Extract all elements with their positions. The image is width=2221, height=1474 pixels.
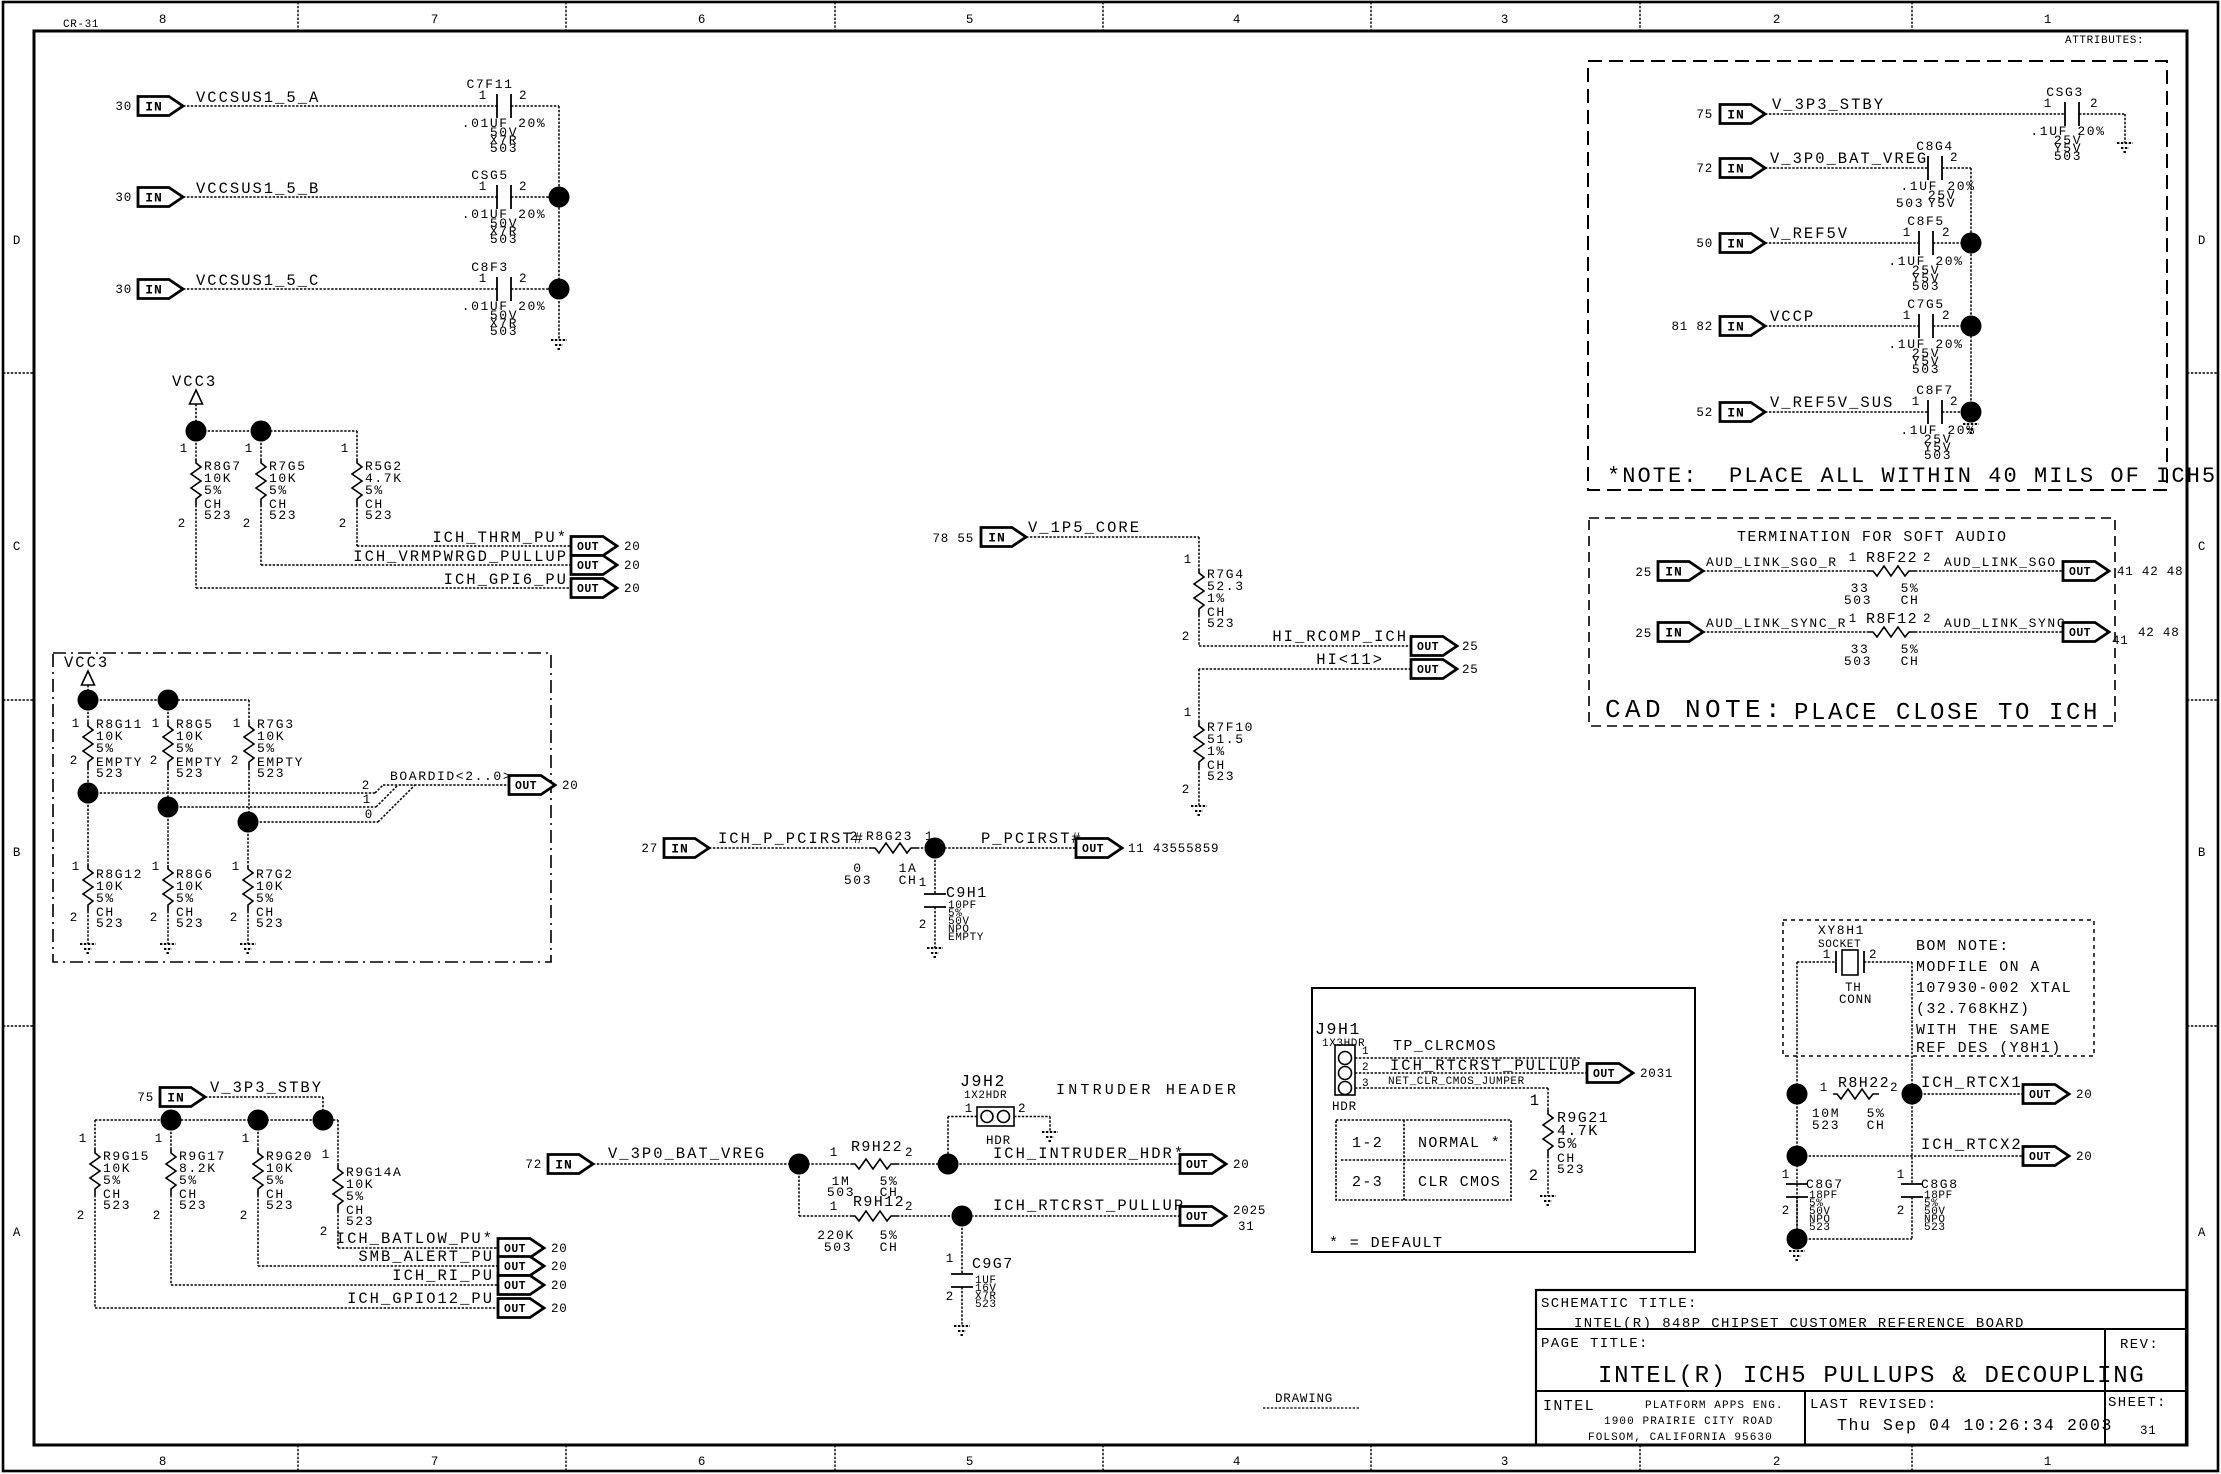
svg-text:OUT: OUT xyxy=(2029,1151,2051,1164)
svg-text:8: 8 xyxy=(159,13,167,27)
svg-text:2: 2 xyxy=(1773,1455,1781,1469)
svg-text:C7G5: C7G5 xyxy=(1907,297,1945,312)
wire R9H22 to intruder node xyxy=(897,1163,1180,1165)
svg-text:C8F5: C8F5 xyxy=(1907,214,1945,229)
net label ICH_VRMPWRGD_PULLUP xyxy=(353,548,568,566)
svg-text:5%: 5% xyxy=(96,891,115,906)
svg-text:503: 503 xyxy=(490,232,518,247)
bus BOARDID to port xyxy=(383,784,509,786)
port IN ICH_P_PCIRST# sheet 27 xyxy=(641,839,709,858)
svg-text:AUD_LINK_SGO: AUD_LINK_SGO xyxy=(1944,555,2057,570)
svg-text:D: D xyxy=(13,234,21,248)
svg-text:CONN: CONN xyxy=(1839,993,1872,1007)
svg-text:IN: IN xyxy=(555,1158,573,1173)
svg-text:2: 2 xyxy=(1529,1167,1540,1185)
label SHEET: xyxy=(2108,1395,2167,1411)
border zone letters right xyxy=(2198,234,2206,1240)
wire C8G7 C8G8 bottom bus xyxy=(1797,1197,1912,1239)
ground symbol J9H2 xyxy=(1042,1132,1058,1141)
wire R9G17 pin 2 to output xyxy=(171,1120,498,1285)
ground symbol C9H1 xyxy=(927,948,943,957)
svg-text:1900 PRAIRIE CITY ROAD: 1900 PRAIRIE CITY ROAD xyxy=(1604,1416,1773,1428)
resistor R9H22 xyxy=(827,1139,913,1200)
svg-text:IN: IN xyxy=(167,1091,185,1106)
wire VCCP to C7G5 xyxy=(1765,325,1919,327)
resistor R8H22 xyxy=(1812,1075,1898,1133)
dotted box BOM note xyxy=(1783,920,2094,1056)
resistor R7G5 xyxy=(243,442,307,531)
svg-text:31: 31 xyxy=(1238,1220,1255,1234)
wire C9G7 to ground xyxy=(961,1287,963,1326)
border zone letters left xyxy=(13,234,21,1240)
svg-text:523: 523 xyxy=(96,916,124,931)
net label ICH_INTRUDER_HDR* xyxy=(993,1145,1185,1163)
svg-text:OUT: OUT xyxy=(577,541,599,554)
svg-text:C8G4: C8G4 xyxy=(1916,139,1954,154)
svg-text:1%: 1% xyxy=(1207,744,1226,759)
label SCHEMATIC TITLE: xyxy=(1541,1296,1698,1312)
svg-text:VCCSUS1_5_C: VCCSUS1_5_C xyxy=(196,272,320,290)
junction node BOARDID bus at R8G5 xyxy=(158,690,179,711)
port OUT ICH_RI_PU sheet 20 xyxy=(498,1276,568,1295)
svg-text:2: 2 xyxy=(519,272,527,286)
svg-text:OUT: OUT xyxy=(577,583,599,596)
net label AUD_LINK_SYNC xyxy=(1944,616,2066,631)
svg-text:1: 1 xyxy=(1820,1081,1828,1095)
resistor R9G20 xyxy=(240,1132,313,1223)
svg-text:A: A xyxy=(2198,1226,2206,1240)
wire R5G2 pin 2 to ICH_THRM_PU* xyxy=(357,505,571,546)
svg-text:OUT: OUT xyxy=(504,1303,526,1316)
wire R9G14A pin 2 to output xyxy=(338,1211,498,1248)
port OUT ICH_VRMPWRGD_PULLUP sheet 20 xyxy=(571,556,641,575)
ground symbol VCCSUS bus xyxy=(551,340,567,349)
wire V_REF5V_SUS to C8F7 xyxy=(1765,411,1928,413)
junction node VCCP xyxy=(1961,316,1982,337)
svg-text:2: 2 xyxy=(1782,1204,1790,1218)
svg-text:* = DEFAULT: * = DEFAULT xyxy=(1329,1235,1443,1252)
label PAGE TITLE: xyxy=(1541,1336,1649,1352)
svg-text:OUT: OUT xyxy=(2069,566,2091,579)
wire V_1P5_CORE xyxy=(1026,537,1199,569)
port OUT AUD_LINK_SYNC sheets 41 42 48 xyxy=(2063,623,2180,649)
wire C8G4 to vertical bus xyxy=(1942,168,1971,412)
wire ICH_P_PCIRST# to R8G23 xyxy=(709,847,871,849)
svg-text:523: 523 xyxy=(1207,769,1235,784)
svg-text:1: 1 xyxy=(1849,551,1857,565)
junction node RTCX1 left xyxy=(1787,1084,1808,1105)
svg-text:523: 523 xyxy=(1812,1118,1840,1133)
port OUT ICH_RTCRST_PULLUP sheets 2025 31 xyxy=(1180,1204,1266,1234)
port OUT ICH_THRM_PU* sheet 20 xyxy=(571,537,641,556)
port OUT SMB_ALERT_PU sheet 20 xyxy=(498,1257,568,1276)
dashed box ICH5 decoupling xyxy=(1588,61,2167,490)
border zone tick marks top and bottom xyxy=(298,2,1912,1471)
svg-text:2: 2 xyxy=(2090,97,2098,111)
svg-text:C9G7: C9G7 xyxy=(972,1256,1014,1273)
svg-text:2: 2 xyxy=(150,911,158,925)
junction node RTCX1 right xyxy=(1902,1084,1923,1105)
svg-text:DRAWING: DRAWING xyxy=(1275,1392,1333,1406)
svg-text:Y5V: Y5V xyxy=(1928,196,1956,211)
svg-text:5%: 5% xyxy=(257,741,276,756)
svg-text:REF DES (Y8H1): REF DES (Y8H1) xyxy=(1916,1040,2062,1057)
wire R7F10 to ground xyxy=(1198,768,1200,806)
svg-text:A: A xyxy=(13,1226,21,1240)
svg-text:VCC3: VCC3 xyxy=(172,373,217,391)
svg-text:2-3: 2-3 xyxy=(1352,1174,1383,1191)
port OUT ICH_RTCX2 sheet 20 xyxy=(2023,1147,2093,1166)
svg-text:OUT: OUT xyxy=(1082,843,1104,856)
svg-text:2: 2 xyxy=(339,517,347,531)
svg-text:5: 5 xyxy=(966,13,974,27)
svg-text:523: 523 xyxy=(346,1214,374,1229)
svg-text:R9H22: R9H22 xyxy=(851,1139,903,1156)
svg-text:5%: 5% xyxy=(269,483,288,498)
junction node STBY bus at R9G17 xyxy=(161,1110,182,1131)
svg-text:81 82: 81 82 xyxy=(1671,320,1713,334)
svg-text:IN: IN xyxy=(145,100,163,115)
svg-text:OUT: OUT xyxy=(1593,1068,1615,1081)
svg-text:2: 2 xyxy=(362,779,370,793)
power symbol VCC3 (BOARDID) xyxy=(64,654,109,700)
svg-text:20: 20 xyxy=(551,1279,568,1293)
svg-text:2025: 2025 xyxy=(1233,1204,1266,1218)
capacitor C8G7 xyxy=(1782,1168,1844,1234)
svg-text:2: 2 xyxy=(1182,783,1190,797)
svg-text:7: 7 xyxy=(431,13,439,27)
svg-text:523: 523 xyxy=(269,508,297,523)
net label V_1P5_CORE xyxy=(1028,519,1141,537)
svg-text:6: 6 xyxy=(698,1455,706,1469)
net label ICH_THRM_PU* xyxy=(432,529,568,547)
svg-text:R8F22: R8F22 xyxy=(1866,550,1918,567)
net label V_3P0_BAT_VREG (decoupling) xyxy=(1770,150,1928,168)
svg-text:2: 2 xyxy=(320,1225,328,1239)
port OUT ICH_INTRUDER_HDR* sheet 20 xyxy=(1180,1155,1250,1174)
svg-text:523: 523 xyxy=(96,766,124,781)
svg-text:TP_CLRCMOS: TP_CLRCMOS xyxy=(1393,1038,1497,1055)
svg-text:5%: 5% xyxy=(176,741,195,756)
label PLATFORM APPS ENG. xyxy=(1645,1400,1784,1412)
capacitor C8G8 xyxy=(1897,1168,1959,1234)
port IN V_REF5V sheet 50 xyxy=(1696,234,1765,253)
svg-text:OUT: OUT xyxy=(2069,627,2091,640)
wire BOARDID bit 1 xyxy=(168,785,398,807)
svg-text:1: 1 xyxy=(72,860,80,874)
wire V_3P0_BAT_VREG xyxy=(593,1163,851,1165)
wire V_3P3_STBY to CSG3 xyxy=(1765,113,2065,115)
wire HI<11> to R7F10 xyxy=(1199,669,1411,722)
wire V_3P3_STBY to bus xyxy=(205,1097,323,1120)
junction node V_REF5V xyxy=(1961,233,1982,254)
svg-text:5%: 5% xyxy=(179,1173,198,1188)
dashed box BOARDID strap options xyxy=(53,653,551,962)
svg-text:CAD NOTE:: CAD NOTE: xyxy=(1605,695,1785,725)
svg-text:Thu Sep 04 10:26:34 2003: Thu Sep 04 10:26:34 2003 xyxy=(1837,1416,2113,1435)
svg-text:8: 8 xyxy=(159,1455,167,1469)
svg-text:1: 1 xyxy=(965,1102,973,1116)
svg-text:4: 4 xyxy=(1233,1455,1241,1469)
svg-text:IN: IN xyxy=(1727,108,1745,123)
svg-text:2: 2 xyxy=(1182,630,1190,644)
wire V_REF5V to C8F5 xyxy=(1765,242,1919,244)
svg-text:IN: IN xyxy=(1727,162,1745,177)
svg-text:3: 3 xyxy=(1501,1455,1509,1469)
wire J9H1 pin 3 to R9G21 xyxy=(1355,1088,1548,1110)
net label VCCP xyxy=(1770,308,1815,326)
svg-text:ICH_GPI6_PU: ICH_GPI6_PU xyxy=(444,571,568,589)
net label V_3P0_BAT_VREG xyxy=(608,1145,766,1163)
svg-text:503: 503 xyxy=(1844,654,1872,669)
svg-text:20: 20 xyxy=(624,540,641,554)
wire R9H12 to RTCRST port xyxy=(897,1215,1180,1217)
svg-text:2: 2 xyxy=(240,1209,248,1223)
svg-text:ICH_RTCX2: ICH_RTCX2 xyxy=(1921,1136,2023,1154)
wire R8G5 pins xyxy=(167,700,169,807)
svg-text:78 55: 78 55 xyxy=(932,532,974,546)
svg-text:FOLSOM, CALIFORNIA 95630: FOLSOM, CALIFORNIA 95630 xyxy=(1588,1432,1773,1444)
svg-text:523: 523 xyxy=(365,508,393,523)
svg-text:J9H2: J9H2 xyxy=(960,1072,1006,1091)
svg-text:CH: CH xyxy=(899,873,918,888)
svg-text:LAST REVISED:: LAST REVISED: xyxy=(1810,1397,1937,1413)
svg-text:5%: 5% xyxy=(346,1189,365,1204)
svg-text:523: 523 xyxy=(1207,616,1235,631)
svg-text:OUT: OUT xyxy=(1417,664,1439,677)
wire J9H1 pin 1 TP_CLRCMOS xyxy=(1355,1057,1580,1059)
svg-text:D: D xyxy=(2198,234,2206,248)
ground symbol R7G2 xyxy=(240,944,256,953)
net label VCCSUS1_5_C xyxy=(196,272,320,290)
net label VCCSUS1_5_A xyxy=(196,89,320,107)
svg-text:503: 503 xyxy=(1844,593,1872,608)
svg-text:1: 1 xyxy=(1849,612,1857,626)
svg-text:5%: 5% xyxy=(176,891,195,906)
svg-text:2: 2 xyxy=(231,754,239,768)
port IN V_3P0_BAT_VREG sheet 72 (decoupling) xyxy=(1696,159,1765,178)
svg-text:V_REF5V_SUS: V_REF5V_SUS xyxy=(1770,394,1894,412)
svg-text:ATTRIBUTES:: ATTRIBUTES: xyxy=(2065,35,2144,47)
svg-text:2: 2 xyxy=(946,1290,954,1304)
net label VCCSUS1_5_B xyxy=(196,180,320,198)
wire vertical ground bus xyxy=(558,106,560,340)
svg-text:107930-002 XTAL: 107930-002 XTAL xyxy=(1916,980,2072,997)
wire BOARDID bit 2 xyxy=(88,779,383,793)
resistor R7G3 xyxy=(231,717,304,781)
svg-text:30: 30 xyxy=(115,100,132,114)
svg-text:V_1P5_CORE: V_1P5_CORE xyxy=(1028,519,1141,537)
svg-text:2: 2 xyxy=(77,1209,85,1223)
net label ICH_RI_PU xyxy=(392,1267,494,1285)
port IN AUD_LINK_SYNC_R sheet 25 xyxy=(1635,623,1703,642)
svg-text:50: 50 xyxy=(1696,237,1713,251)
wire C7F11 pin 2 to GND bus xyxy=(511,105,559,107)
svg-text:R9H12: R9H12 xyxy=(853,1194,905,1211)
svg-text:2: 2 xyxy=(1362,1062,1369,1074)
svg-text:3: 3 xyxy=(1501,13,1509,27)
svg-text:1: 1 xyxy=(363,793,371,807)
svg-text:IN: IN xyxy=(1665,565,1683,580)
net label ICH_RTCRST_PULLUP (lower) xyxy=(993,1197,1185,1215)
net label BOARDID<2..0> xyxy=(390,769,512,784)
resistor R9G17 xyxy=(153,1132,226,1223)
svg-text:20: 20 xyxy=(562,779,579,793)
svg-text:OUT: OUT xyxy=(504,1280,526,1293)
svg-text:1: 1 xyxy=(1912,395,1920,409)
svg-text:2: 2 xyxy=(850,830,858,844)
border zone tick marks left and right xyxy=(3,373,2218,1026)
svg-text:30: 30 xyxy=(115,283,132,297)
connector J9H1 xyxy=(1315,1020,1369,1114)
svg-text:VCCP: VCCP xyxy=(1770,308,1815,326)
port IN VCCSUS1_5_A sheet 30 xyxy=(115,97,183,116)
net label NET_CLR_CMOS_JUMPER xyxy=(1388,1076,1525,1088)
net label AUD_LINK_SGO_R xyxy=(1706,555,1838,570)
svg-text:523: 523 xyxy=(1924,1222,1946,1234)
net label ICH_BATLOW_PU* xyxy=(336,1230,494,1248)
svg-text:IN: IN xyxy=(1727,320,1745,335)
svg-text:C: C xyxy=(2198,540,2206,554)
svg-text:20: 20 xyxy=(1233,1158,1250,1172)
svg-text:2: 2 xyxy=(905,1146,913,1160)
svg-text:31: 31 xyxy=(2140,1424,2157,1438)
wire P_PCIRST# node to C9H1 xyxy=(934,848,936,894)
svg-text:AUD_LINK_SYNC_R: AUD_LINK_SYNC_R xyxy=(1706,616,1847,631)
svg-text:72: 72 xyxy=(1696,162,1713,176)
svg-text:OUT: OUT xyxy=(504,1243,526,1256)
svg-text:523: 523 xyxy=(266,1198,294,1213)
svg-text:CH: CH xyxy=(1901,593,1920,608)
svg-text:27: 27 xyxy=(641,842,658,856)
net label ICH_GPI6_PU xyxy=(444,571,568,589)
svg-text:HDR: HDR xyxy=(1332,1100,1357,1114)
svg-text:INTEL(R) ICH5 PULLUPS & DECOUP: INTEL(R) ICH5 PULLUPS & DECOUPLING xyxy=(1598,1363,2145,1390)
svg-text:HI<11>: HI<11> xyxy=(1316,651,1384,669)
svg-text:1: 1 xyxy=(180,442,188,456)
capacitor C8G4 xyxy=(1896,139,1976,211)
svg-text:1: 1 xyxy=(341,442,349,456)
power symbol VCC3 xyxy=(172,373,217,431)
port IN V_1P5_CORE sheets 78 55 xyxy=(932,528,1026,547)
svg-text:CLR CMOS: CLR CMOS xyxy=(1418,1174,1501,1191)
resistor R8G7 xyxy=(178,442,242,531)
svg-text:ICH_RTCRST_PULLUP: ICH_RTCRST_PULLUP xyxy=(993,1197,1185,1215)
capacitor CSG3 xyxy=(2030,85,2105,164)
label ATTRIBUTES: xyxy=(2065,35,2144,47)
ground symbol R8G6 xyxy=(160,944,176,953)
svg-text:CH: CH xyxy=(880,1240,899,1255)
note PLACE CLOSE TO ICH xyxy=(1794,700,2100,727)
svg-text:4: 4 xyxy=(1233,13,1241,27)
svg-text:20: 20 xyxy=(551,1302,568,1316)
ground symbol R7F10 xyxy=(1191,806,1207,815)
svg-text:20: 20 xyxy=(551,1260,568,1274)
svg-text:503: 503 xyxy=(1896,196,1924,211)
svg-text:1: 1 xyxy=(1782,1168,1790,1182)
net label SMB_ALERT_PU xyxy=(358,1248,494,1266)
svg-text:ICH_VRMPWRGD_PULLUP: ICH_VRMPWRGD_PULLUP xyxy=(353,548,568,566)
wire R7G2 pins xyxy=(247,822,249,944)
svg-text:20: 20 xyxy=(551,1242,568,1256)
svg-text:OUT: OUT xyxy=(2029,1089,2051,1102)
label INTEL xyxy=(1543,1398,1595,1415)
svg-text:V_3P3_STBY: V_3P3_STBY xyxy=(1772,96,1885,114)
label revision date xyxy=(1837,1416,2113,1435)
capacitor C9H1 xyxy=(919,876,988,944)
svg-text:503: 503 xyxy=(2054,149,2082,164)
wire AUD_LINK_SGO_R to R8F22 xyxy=(1703,570,1869,572)
junction node STBY bus at IN drop xyxy=(313,1110,334,1131)
junction node VCC3 at R7G5 xyxy=(251,421,272,442)
capacitor CSG5 xyxy=(462,168,547,247)
net label V_3P3_STBY (decoupling) xyxy=(1772,96,1885,114)
label schematic title text xyxy=(1574,1316,2025,1332)
junction node BAT_VREG split xyxy=(789,1154,810,1175)
junction node STBY bus at R9G20 xyxy=(248,1110,269,1131)
svg-text:75: 75 xyxy=(137,1091,154,1105)
svg-text:25: 25 xyxy=(1462,663,1479,677)
svg-text:523: 523 xyxy=(1557,1162,1585,1177)
svg-text:1: 1 xyxy=(2044,1455,2052,1469)
wire AUD_LINK_SYNC_R to R8F12 xyxy=(1703,631,1869,633)
svg-text:IN: IN xyxy=(145,191,163,206)
port IN V_3P3_STBY sheet 75 (decoupling) xyxy=(1696,105,1765,124)
svg-text:V_REF5V: V_REF5V xyxy=(1770,225,1849,243)
svg-text:J9H1: J9H1 xyxy=(1315,1020,1361,1039)
junction node intruder xyxy=(938,1154,959,1175)
svg-text:R8G23: R8G23 xyxy=(866,829,913,844)
wire RTCRST node to C9G7 xyxy=(961,1216,963,1274)
svg-text:2: 2 xyxy=(1923,551,1931,565)
wire ICH_RTCX1 xyxy=(1912,1093,2023,1095)
svg-text:523: 523 xyxy=(103,1198,131,1213)
wire R9G15 pin 2 to output xyxy=(95,1120,498,1308)
svg-text:20: 20 xyxy=(624,559,641,573)
svg-text:1: 1 xyxy=(233,717,241,731)
note BOM NOTE block xyxy=(1916,938,2072,1057)
wire crystal pin 2 xyxy=(1864,962,1912,1184)
port OUT AUD_LINK_SGO sheets 41 42 48 xyxy=(2063,562,2183,581)
svg-text:V_3P0_BAT_VREG: V_3P0_BAT_VREG xyxy=(608,1145,766,1163)
svg-text:C8F7: C8F7 xyxy=(1916,383,1954,398)
label page title text xyxy=(1598,1363,2145,1390)
svg-text:2: 2 xyxy=(919,918,927,932)
svg-text:R8F12: R8F12 xyxy=(1866,611,1918,628)
svg-text:AUD_LINK_SGO_R: AUD_LINK_SGO_R xyxy=(1706,555,1838,570)
svg-text:5%: 5% xyxy=(204,483,223,498)
svg-text:TERMINATION FOR SOFT AUDIO: TERMINATION FOR SOFT AUDIO xyxy=(1737,529,2007,546)
svg-text:503: 503 xyxy=(490,324,518,339)
capacitor C9G7 xyxy=(946,1252,1014,1311)
svg-text:2: 2 xyxy=(1869,948,1877,962)
svg-text:5%: 5% xyxy=(96,741,115,756)
note PLACE ALL WITHIN 40 MILS xyxy=(1607,464,2217,489)
svg-text:CH: CH xyxy=(1901,654,1920,669)
svg-text:1: 1 xyxy=(1184,553,1192,567)
wire J9H1 pin 2 to port xyxy=(1355,1072,1587,1074)
net label ICH_RTCRST_PULLUP (J9H1) xyxy=(1390,1057,1582,1075)
svg-text:2: 2 xyxy=(1923,612,1931,626)
ground symbol crystal xyxy=(1789,1251,1805,1260)
svg-text:2: 2 xyxy=(1942,309,1950,323)
wire R8F22 to AUD_LINK_SGO xyxy=(1915,570,2063,572)
junction node BOARDID bit1 xyxy=(158,797,179,818)
label sheet number 31 xyxy=(2140,1424,2157,1438)
wire R9G20 pin 2 to output xyxy=(258,1120,498,1266)
svg-text:1: 1 xyxy=(152,860,160,874)
svg-text:VCCSUS1_5_A: VCCSUS1_5_A xyxy=(196,89,320,107)
